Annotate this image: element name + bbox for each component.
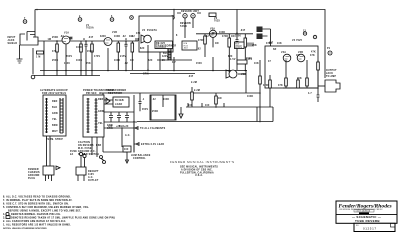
svg-text:FENDER: FENDER xyxy=(28,169,39,171)
svg-text:8: 8 xyxy=(176,35,178,37)
svg-text:100K: 100K xyxy=(76,60,82,62)
svg-text:JACK: JACK xyxy=(326,72,333,75)
svg-text:ON REVERB: ON REVERB xyxy=(78,145,94,147)
svg-text:2200: 2200 xyxy=(235,36,241,38)
svg-text:V4B: V4B xyxy=(298,51,303,54)
svg-text:V2: V2 xyxy=(142,30,146,32)
svg-text:250K: 250K xyxy=(52,60,58,62)
svg-text:215V: 215V xyxy=(120,56,126,58)
svg-text:.1: .1 xyxy=(142,99,145,101)
svg-text:V4A: V4A xyxy=(281,51,286,54)
svg-text:TO ALL FILAMENTS: TO ALL FILAMENTS xyxy=(140,127,166,130)
svg-text:100K: 100K xyxy=(76,47,82,49)
svg-text:OUTPUT: OUTPUT xyxy=(156,48,167,50)
svg-text:TERM. STRIP: TERM. STRIP xyxy=(46,139,63,141)
svg-text:8. ALL D.C. VOLTAGES READ TO C: 8. ALL D.C. VOLTAGES READ TO CHASSIS GRO… xyxy=(3,196,71,199)
svg-text:5U4GB: 5U4GB xyxy=(115,99,124,102)
svg-text:V1A: V1A xyxy=(64,32,69,35)
svg-text:JACK: JACK xyxy=(8,39,15,42)
svg-text:WHT: WHT xyxy=(52,131,58,133)
svg-text:.02: .02 xyxy=(205,36,209,38)
svg-text:V4 7025: V4 7025 xyxy=(292,39,303,42)
svg-text:GRN: GRN xyxy=(98,111,104,113)
svg-text:GROUND: GROUND xyxy=(28,175,40,177)
svg-text:2. ALL CAPACITORS ARE RATED AT: 2. ALL CAPACITORS ARE RATED AT 600 W.V.D… xyxy=(3,220,67,223)
svg-text:25K: 25K xyxy=(297,78,302,80)
svg-text:A.C.: A.C. xyxy=(88,176,94,179)
svg-text:NO.: NO. xyxy=(356,225,360,227)
svg-text:25K: 25K xyxy=(86,63,91,65)
svg-text:100K: 100K xyxy=(219,32,225,34)
svg-text:NOTES: UNLESS OTHERWISE SPECIF: NOTES: UNLESS OTHERWISE SPECIFIED xyxy=(3,228,47,230)
svg-text:10K: 10K xyxy=(254,63,259,65)
svg-text:100K: 100K xyxy=(114,60,120,62)
svg-text:RECEPT: RECEPT xyxy=(88,171,99,173)
svg-text:47K: 47K xyxy=(311,51,316,54)
svg-text:6. USE C.T. STD IN SERIES WITH: 6. USE C.T. STD IN SERIES WITH SEL. SWIT… xyxy=(3,204,69,206)
svg-text:1500: 1500 xyxy=(87,51,93,53)
svg-text:100K: 100K xyxy=(114,36,120,38)
svg-text:BLK: BLK xyxy=(52,107,58,109)
svg-text:6V6GTA: 6V6GTA xyxy=(147,29,157,32)
svg-text:470K: 470K xyxy=(263,84,269,87)
svg-text:820: 820 xyxy=(148,60,153,62)
svg-text:1M: 1M xyxy=(130,60,134,62)
svg-text:420V: 420V xyxy=(162,55,168,58)
svg-text:1300 E. VALENCIA: 1300 E. VALENCIA xyxy=(356,210,371,213)
svg-text:1M: 1M xyxy=(129,36,133,38)
svg-text:OUTLET: OUTLET xyxy=(88,180,99,182)
svg-text:350V: 350V xyxy=(66,56,72,58)
svg-text:CHASSIS: CHASSIS xyxy=(28,171,40,174)
svg-text:47: 47 xyxy=(268,60,271,63)
svg-text:2A: 2A xyxy=(70,153,73,156)
svg-text:.047: .047 xyxy=(88,36,94,39)
svg-text:RECTIFIER: RECTIFIER xyxy=(108,93,122,95)
svg-text:PLUG: PLUG xyxy=(28,178,35,180)
svg-text:2.2M: 2.2M xyxy=(191,82,197,84)
svg-text:TUBE REVERB: TUBE REVERB xyxy=(355,219,380,223)
svg-text:1M: 1M xyxy=(231,36,235,38)
svg-text:25K: 25K xyxy=(252,45,257,47)
svg-text:470K: 470K xyxy=(222,35,228,38)
svg-text:1. ALL RESISTORS ARE 1/2 WATT: 1. ALL RESISTORS ARE 1/2 WATT UNLESS IN … xyxy=(3,224,71,227)
svg-text:NF: NF xyxy=(273,49,277,51)
svg-text:YEL: YEL xyxy=(52,119,58,121)
svg-text:250K: 250K xyxy=(52,37,58,39)
svg-text:TANK: TANK xyxy=(180,25,187,28)
svg-text:470: 470 xyxy=(52,50,57,53)
svg-text:HUM BALANCE: HUM BALANCE xyxy=(131,154,151,157)
svg-text:TRANSFORMER: TRANSFORMER xyxy=(106,89,126,92)
svg-text:1M: 1M xyxy=(218,98,222,100)
svg-text:ESR: ESR xyxy=(96,145,102,147)
svg-text:SEE MUSICAL INSTRUMENTS: SEE MUSICAL INSTRUMENTS xyxy=(180,166,218,169)
svg-text:25: 25 xyxy=(162,60,165,62)
svg-text:3300: 3300 xyxy=(100,36,106,38)
svg-text:.02: .02 xyxy=(197,49,201,51)
svg-text:V1B: V1B xyxy=(112,32,117,34)
svg-text:.02: .02 xyxy=(122,36,126,38)
svg-text:1 M: 1 M xyxy=(36,57,41,59)
svg-text:2.2M: 2.2M xyxy=(194,90,200,92)
svg-text:YEL: YEL xyxy=(98,123,104,125)
svg-text:CAUTION: CAUTION xyxy=(78,141,90,144)
svg-text:470K: 470K xyxy=(266,42,272,45)
svg-text:FULLERTON, CALIFORNIA: FULLERTON, CALIFORNIA xyxy=(180,171,214,174)
svg-text:10K: 10K xyxy=(277,43,282,45)
svg-text:LOAD: LOAD xyxy=(115,103,123,106)
svg-text:REVERB: REVERB xyxy=(180,23,191,25)
svg-text:FOR 240V HOTELS: FOR 240V HOTELS xyxy=(42,92,66,95)
svg-text:1M: 1M xyxy=(296,55,300,57)
svg-text:BEFORE USING A KNOB, EXCEPT LI: BEFORE USING A KNOB, EXCEPT LINE TO VOLU… xyxy=(8,210,81,213)
svg-text:820: 820 xyxy=(228,56,233,58)
svg-text:CONTROL: CONTROL xyxy=(133,158,146,160)
svg-text:820: 820 xyxy=(140,48,145,50)
svg-text:RED: RED xyxy=(98,99,104,101)
svg-text:GRN: GRN xyxy=(52,113,58,115)
svg-text:100: 100 xyxy=(205,105,210,107)
svg-text:A DIVISION OF CBS INC.: A DIVISION OF CBS INC. xyxy=(181,169,213,172)
svg-text:EXTRA 6.3V LEAD: EXTRA 6.3V LEAD xyxy=(141,143,164,146)
svg-text:470: 470 xyxy=(136,32,141,35)
svg-text:100K: 100K xyxy=(247,96,253,98)
svg-text:M.D. FUSE: M.D. FUSE xyxy=(78,148,92,150)
svg-text:450V: 450V xyxy=(142,108,148,111)
svg-text:BLU: BLU xyxy=(163,53,169,55)
svg-text:012517: 012517 xyxy=(363,227,377,231)
svg-text:1.5V: 1.5V xyxy=(230,59,236,61)
svg-text:1M: 1M xyxy=(215,43,219,45)
svg-text:U.S.A.: U.S.A. xyxy=(195,174,203,177)
svg-text:.047: .047 xyxy=(240,29,246,32)
svg-text:250K: 250K xyxy=(152,111,158,113)
svg-text:3.: 3. xyxy=(3,218,5,220)
svg-text:OUTPUT: OUTPUT xyxy=(326,70,337,72)
svg-text:.02: .02 xyxy=(152,99,156,101)
svg-text:7. IN NORMAL PLAY SETS IN SOME: 7. IN NORMAL PLAY SETS IN SOME MID POSIT… xyxy=(3,199,73,202)
svg-text:FUSE: FUSE xyxy=(70,151,77,153)
svg-text:P1: P1 xyxy=(327,48,331,50)
svg-text:4.: 4. xyxy=(3,213,5,216)
svg-text:TO AMP: TO AMP xyxy=(326,75,336,78)
svg-text:1500: 1500 xyxy=(64,63,70,65)
svg-text:47K: 47K xyxy=(278,84,283,87)
svg-text:4.7: 4.7 xyxy=(308,92,312,95)
svg-text:.02: .02 xyxy=(60,36,64,38)
svg-text:INPUT: INPUT xyxy=(8,37,16,39)
svg-text:1500: 1500 xyxy=(196,63,202,65)
svg-text:ALTERNATE HOOKUP: ALTERNATE HOOKUP xyxy=(40,89,68,92)
svg-text:470K: 470K xyxy=(198,39,204,42)
svg-text:GRN: GRN xyxy=(107,125,113,127)
svg-text:A.C.: A.C. xyxy=(125,134,131,137)
svg-text:245V: 245V xyxy=(246,58,252,61)
svg-text:SHIELD: SHIELD xyxy=(8,43,18,45)
svg-text:REVERB UNIT: REVERB UNIT xyxy=(181,11,199,13)
svg-text:110V: 110V xyxy=(88,174,94,176)
svg-text:REVERB: REVERB xyxy=(235,47,243,49)
svg-text:RED: RED xyxy=(52,101,58,103)
svg-text:170V: 170V xyxy=(94,56,100,58)
svg-text:DENOTES NORMAL CHASSIS PIN LUG: DENOTES NORMAL CHASSIS PIN LUG. xyxy=(11,213,61,216)
svg-text:7025: 7025 xyxy=(214,21,220,23)
svg-text:5. CONTROLS SET FOR MAXIMUM, U: 5. CONTROLS SET FOR MAXIMUM, UNLESS MARK… xyxy=(3,206,89,209)
svg-text:100: 100 xyxy=(124,149,129,151)
svg-text:47K: 47K xyxy=(310,54,315,57)
svg-text:.047: .047 xyxy=(188,75,194,78)
svg-text:7025A: 7025A xyxy=(86,27,94,30)
svg-text:BRN: BRN xyxy=(52,125,58,127)
svg-text:FENDER MUSICAL INSTRUMENT'S: FENDER MUSICAL INSTRUMENT'S xyxy=(170,160,235,164)
svg-text:100K: 100K xyxy=(163,99,169,101)
svg-text:DENOTES READING TAKEN AT 17 SM: DENOTES READING TAKEN AT 17 SML. (WAFFLE… xyxy=(11,217,115,220)
